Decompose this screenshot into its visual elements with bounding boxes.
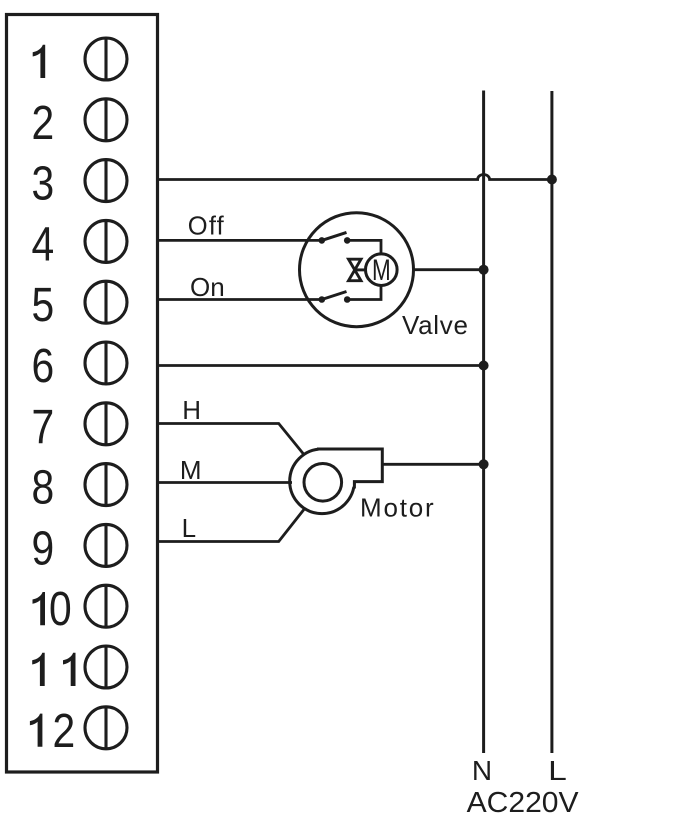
terminal 2 <box>85 99 127 141</box>
valve symbol bowtie <box>349 259 367 281</box>
valve bottom switch blade (On) <box>322 292 347 300</box>
wire terminal 6 to N <box>158 364 484 367</box>
terminal 12 label <box>30 714 43 747</box>
motor hub circle <box>304 464 342 502</box>
svg-text:2: 2 <box>53 705 76 758</box>
terminal 5 <box>85 281 127 323</box>
svg-text:7: 7 <box>32 401 55 454</box>
svg-text:Motor: Motor <box>360 493 435 523</box>
wire valve to N <box>414 268 484 271</box>
L supply line <box>550 91 553 753</box>
wire terminal 9 (L) to motor <box>158 509 305 542</box>
wire terminal 3 to L (hops over N) <box>158 175 552 180</box>
svg-text:4: 4 <box>32 218 55 271</box>
wire motor to N <box>382 463 483 466</box>
terminal block TB1 <box>7 15 158 773</box>
motor B1 housing circle <box>290 449 355 514</box>
svg-text:L: L <box>182 513 196 543</box>
svg-text:N: N <box>472 755 492 786</box>
svg-text:0: 0 <box>49 583 72 636</box>
valve motor circle M <box>366 254 398 286</box>
motor outlet duct <box>317 449 382 489</box>
terminal 11 label <box>32 653 45 686</box>
terminal 3 <box>85 160 127 202</box>
valve internal wire top switch to motor to bottom switch <box>347 240 381 299</box>
terminal 1 <box>85 38 127 80</box>
junction dot motor on N <box>479 459 489 469</box>
svg-text:8: 8 <box>32 462 55 515</box>
svg-text:M: M <box>180 455 202 485</box>
valve V1 body circle <box>300 213 414 327</box>
valve top switch contact dots <box>319 237 326 244</box>
junction dot wire6 on N <box>479 361 489 371</box>
svg-text:L: L <box>548 755 567 787</box>
svg-text:AC220V: AC220V <box>467 787 580 819</box>
terminal 7 <box>85 403 127 445</box>
svg-text:H: H <box>182 395 201 425</box>
terminal 11 <box>85 646 127 688</box>
svg-text:2: 2 <box>32 97 55 150</box>
svg-text:Off: Off <box>188 213 225 241</box>
N supply line <box>482 91 485 754</box>
terminal 1 label <box>33 45 46 78</box>
valve top switch blade (Off) <box>322 232 347 240</box>
wire terminal 7 (H) to motor <box>158 424 305 455</box>
wire terminal 5 (On) to valve switch <box>158 298 322 301</box>
svg-text:M: M <box>372 253 391 287</box>
terminal 8 <box>85 464 127 506</box>
terminal 4 <box>85 220 127 262</box>
terminal 9 <box>85 524 127 566</box>
svg-text:9: 9 <box>32 522 55 575</box>
svg-text:3: 3 <box>32 158 55 211</box>
wire terminal 4 (Off) to valve switch <box>158 239 322 242</box>
terminal 6 <box>85 342 127 384</box>
terminal 12 <box>85 707 127 749</box>
svg-text:5: 5 <box>32 279 55 332</box>
terminal 10 <box>85 585 127 627</box>
terminal 10 label <box>33 592 46 625</box>
valve bottom switch contact dots <box>319 296 326 303</box>
svg-text:On: On <box>190 272 225 302</box>
svg-text:Valve: Valve <box>402 310 469 340</box>
wire terminal 8 (M) to motor <box>158 481 293 484</box>
svg-text:6: 6 <box>32 340 55 393</box>
junction dot valve on N <box>479 265 489 275</box>
junction dot wire3 on L <box>547 175 557 185</box>
